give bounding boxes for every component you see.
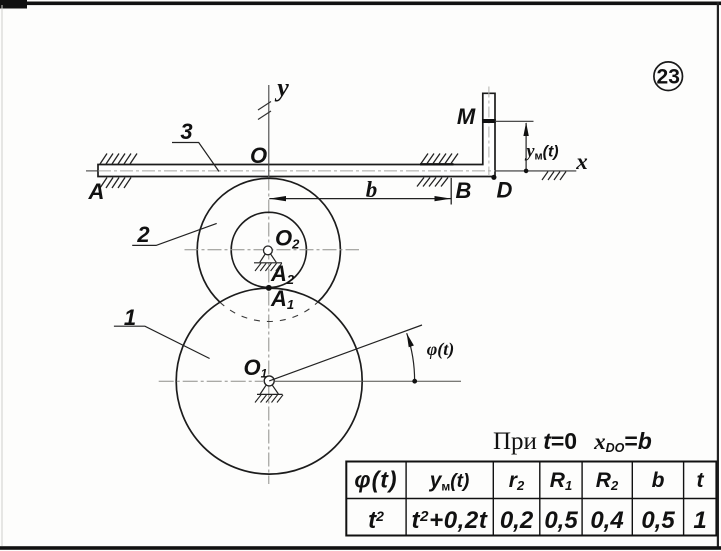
rod centerline (dash-dot) [488,87,490,177]
frame left faint border [2,5,3,546]
svg-text:b: b [652,469,665,492]
ground hatching right of D [542,172,566,181]
x axis left segment [86,170,99,172]
frame right border [717,2,719,548]
x axis right segment [495,170,576,172]
contact point A1/A2 dot [266,285,272,291]
problem number 23 badge [654,62,683,91]
svg-text:23: 23 [657,66,680,89]
svg-text:b: b [366,177,378,202]
svg-text:3: 3 [180,119,192,144]
pivot O2 [254,246,282,271]
point B tick [450,178,452,205]
slider M tick on rod [482,119,496,123]
svg-text:A: A [88,179,105,204]
svg-text:2: 2 [136,222,150,247]
x axis centerline through bar (dash-dot) [98,170,495,172]
pivot O1 [255,376,283,403]
svg-text:1: 1 [124,305,136,330]
svg-text:0,5: 0,5 [641,507,675,534]
svg-text:M: M [457,104,476,129]
leader and label 2 [132,223,217,245]
guide hatching left bottom [100,178,131,189]
svg-text:y: y [274,73,289,102]
wheel 1 circle R1 [176,288,362,474]
svg-text:D: D [497,178,513,203]
wheel 2 horizontal centerline [185,249,360,251]
wheel 2 outer circle R2 (solid upper arc) [197,178,340,302]
y axis centerline continuation (dash-dot) [268,177,270,485]
svg-text:B: B [456,178,472,203]
guide hatching at B bottom [417,178,448,187]
table value row [368,507,707,534]
svg-text:0,2: 0,2 [500,507,534,534]
yM(t) dimension line [525,123,527,171]
table header row [354,467,704,494]
svg-text:x: x [575,149,588,174]
data table [346,462,716,536]
M level reference line [495,120,534,122]
svg-text:0,4: 0,4 [590,507,623,534]
svg-text:O: O [250,143,267,168]
svg-text:1: 1 [693,507,706,534]
svg-text:φ(t): φ(t) [427,339,455,360]
y axis upper solid segment [268,85,270,177]
y axis break marks [258,102,271,111]
phi(t) arc [407,333,415,381]
point D dot [491,175,496,180]
crank radius line [269,325,422,381]
svg-text:φ(t): φ(t) [354,467,397,493]
guide hatching at B top with base [420,163,454,165]
leader and label 1 [114,326,210,358]
wheel 2 inner circle r2 [231,212,306,287]
leader and label 3 [172,143,219,172]
svg-text:При t=0xDO=b: При t=0xDO=b [493,428,652,455]
wheel 1 horizontal centerline [159,380,263,382]
frame top border [0,2,721,6]
b dimension line with arrows [269,198,451,200]
wheel 2 outer circle R2 (dashed lower arc) [220,302,318,321]
frame bottom border [0,546,721,550]
rack 3 : L-shaped bar with vertical rod [98,93,495,176]
svg-text:t: t [697,469,705,492]
guide hatching left top [100,154,137,165]
svg-text:0,5: 0,5 [544,507,578,534]
